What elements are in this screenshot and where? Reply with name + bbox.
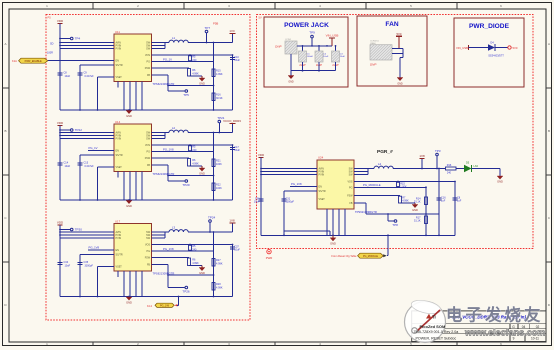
svg-text:0.047uF: 0.047uF — [85, 75, 95, 78]
svg-text:PG_MODULE: PG_MODULE — [363, 255, 378, 258]
svg-text:PG: PG — [147, 61, 151, 64]
test point TP22 — [59, 128, 82, 132]
svg-text:LNJ: LNJ — [474, 165, 479, 168]
wire output rail 1V0 — [188, 42, 232, 44]
svg-text:PGR_#: PGR_# — [377, 149, 393, 155]
svg-text:PVIN: PVIN — [116, 138, 122, 141]
svg-text:10uF: 10uF — [340, 56, 346, 58]
svg-text:30.9K: 30.9K — [216, 97, 223, 100]
svg-text:0.047uF: 0.047uF — [85, 165, 95, 168]
inductor L1 — [169, 36, 188, 43]
wire fan pins — [392, 49, 403, 78]
group box POWER JACK — [264, 17, 348, 87]
svg-text:EN: EN — [116, 60, 120, 63]
wire output rail VCCO_DDR3 — [188, 132, 232, 134]
svg-text:4.99K: 4.99K — [192, 262, 199, 265]
svg-text:7MB-7Z8X9 001-0 Rev 2.0a: 7MB-7Z8X9 001-0 Rev 2.0a — [414, 330, 459, 334]
svg-text:TP3: TP3 — [435, 149, 441, 153]
resistor R22 feedback divider bottom — [212, 183, 222, 191]
power port VDD (U14 input) — [57, 121, 64, 126]
wire VOS — [152, 244, 234, 246]
wire SW to inductor — [152, 232, 170, 238]
ground (U24) — [330, 235, 336, 245]
svg-text:VSET: VSET — [319, 198, 326, 201]
svg-text:4.99K: 4.99K — [216, 287, 223, 290]
wire ground rail — [60, 109, 233, 111]
connector J1 power jack (DNP) — [275, 39, 297, 54]
svg-text:1V8: 1V8 — [419, 154, 425, 158]
ground (LED) — [472, 169, 504, 184]
svg-text:VDD: VDD — [57, 19, 64, 23]
svg-text:1V0: 1V0 — [229, 29, 235, 33]
svg-text:PG: PG — [147, 151, 151, 154]
wire EN — [88, 146, 114, 151]
svg-text:100K: 100K — [216, 187, 222, 190]
svg-text:PG_MODULE: PG_MODULE — [363, 183, 381, 187]
resistor R15 feedback divider top — [212, 43, 223, 111]
svg-text:1uF: 1uF — [441, 199, 446, 202]
svg-text:PG_1V8: PG_1V8 — [291, 182, 302, 186]
svg-text:51.1K: 51.1K — [414, 201, 421, 204]
svg-text:5V0: 5V0 — [397, 32, 402, 36]
svg-text:PWR: PWR — [266, 256, 273, 260]
svg-text:A: A — [548, 42, 550, 46]
regulator IC U17 — [114, 220, 174, 276]
svg-text:VSET: VSET — [116, 266, 123, 269]
svg-text:POWER JACK: POWER JACK — [284, 22, 329, 29]
test point TP9 — [309, 31, 315, 46]
net flag P5B — [213, 22, 218, 26]
svg-text:240: 240 — [192, 59, 197, 62]
svg-text:GND: GND — [412, 208, 418, 212]
svg-text:A: A — [4, 42, 6, 46]
svg-text:TP26: TP26 — [182, 289, 190, 293]
harness port PWR_ENABLE — [12, 58, 48, 63]
svg-text:TP5: TP5 — [183, 93, 189, 97]
TI logo — [426, 314, 436, 320]
LED D5 — [456, 162, 479, 173]
wire ground rail (U24) — [261, 231, 455, 236]
svg-text:FB: FB — [147, 74, 150, 77]
power port 1V8 (U24 output) — [419, 154, 425, 169]
svg-text:GND: GND — [126, 114, 132, 118]
svg-text:PVIN: PVIN — [116, 237, 122, 240]
wire VOS — [152, 144, 234, 146]
title text — [452, 314, 526, 319]
svg-text:TP4: TP4 — [75, 37, 81, 41]
IC bottom pins to ground rail — [118, 271, 142, 297]
wire FB — [152, 265, 215, 288]
svg-text:GND: GND — [330, 241, 336, 245]
svg-text:51.1K: 51.1K — [414, 220, 421, 223]
test point TP24 — [208, 216, 216, 233]
svg-text:100uF: 100uF — [307, 56, 314, 58]
wire ground rail — [60, 296, 233, 298]
wire FSW — [152, 157, 190, 159]
wire VDD bus — [59, 24, 114, 49]
svg-text:SS/TR: SS/TR — [319, 190, 326, 193]
svg-text:CON1: CON1 — [285, 39, 292, 41]
wire SS — [80, 64, 114, 66]
test point TP30 — [59, 228, 82, 232]
inductor L4 — [374, 162, 393, 169]
wire FSW — [152, 257, 190, 259]
svg-text:3300pF: 3300pF — [85, 264, 94, 267]
svg-text:TP24: TP24 — [208, 216, 216, 220]
ground (fan) — [397, 78, 403, 86]
svg-text:VDD: VDD — [57, 221, 64, 225]
svg-text:www.elecfans.com: www.elecfans.com — [464, 328, 545, 338]
svg-text:TP22: TP22 — [75, 128, 83, 132]
svg-text:VIN_USB: VIN_USB — [326, 34, 339, 38]
wire PG — [152, 147, 214, 151]
svg-text:EN: EN — [116, 150, 120, 153]
no-ERC directive PWR — [266, 249, 273, 260]
resistor R5 pull-up — [189, 56, 197, 63]
output capacitor C16 — [437, 169, 447, 236]
svg-text:1.00K: 1.00K — [400, 185, 407, 188]
input capacitor C35 — [78, 255, 94, 297]
ground (U24 FSW resistor) — [400, 203, 418, 212]
power port VDD (U17 input) — [57, 221, 64, 226]
svg-text:VDD: VDD — [57, 121, 64, 125]
svg-text:B: B — [4, 129, 6, 133]
output capacitor C37 — [230, 245, 240, 297]
svg-text:240: 240 — [447, 172, 452, 175]
wire PG_1V8 port to rail — [177, 296, 179, 306]
svg-text:U24: U24 — [318, 156, 324, 160]
title block row 3 — [414, 330, 459, 334]
svg-text:4.99K: 4.99K — [216, 263, 223, 266]
input capacitor C14 — [58, 139, 71, 201]
regulator IC U11 — [114, 30, 174, 86]
wire VSET — [98, 77, 115, 110]
connector J2 fan header (DNP) — [370, 41, 392, 67]
svg-text:10uF: 10uF — [65, 75, 71, 78]
wire VOS — [152, 54, 234, 56]
wire FB (U24) — [354, 203, 439, 215]
svg-text:10uF: 10uF — [323, 56, 329, 58]
regulator IC U24 (module rail) — [317, 156, 377, 214]
title PGR_# — [377, 149, 393, 155]
svg-text:DNP: DNP — [370, 63, 376, 67]
wire SS — [80, 154, 114, 156]
resistor R7 (U24 FSW) — [399, 196, 410, 203]
svg-text:15uF: 15uF — [234, 149, 240, 152]
svg-text:PicoZed SOM: PicoZed SOM — [420, 324, 446, 329]
ground (FSW resistor) — [189, 76, 205, 86]
power port VCCO_DDR3 — [223, 119, 241, 132]
svg-text:EN: EN — [319, 186, 323, 189]
wire SS (U24) — [284, 190, 317, 192]
output capacitor C10 — [230, 55, 240, 110]
dashed group box: power input (right) — [257, 15, 534, 249]
inductor L3 — [169, 226, 188, 233]
resistor R16 feedback divider bottom — [212, 93, 223, 101]
svg-text:VOS: VOS — [347, 181, 352, 184]
power port 1V0 — [229, 29, 235, 42]
svg-text:100R: 100R — [47, 52, 53, 55]
svg-text:4.99K: 4.99K — [192, 162, 199, 165]
wire diode cathode — [495, 47, 508, 49]
wire VDD bus (U24) — [260, 158, 317, 236]
input capacitor C34 — [58, 238, 71, 297]
wire output rail 1V8_MOD — [393, 168, 445, 170]
wire PG — [152, 247, 214, 251]
svg-text:1V8: 1V8 — [229, 219, 235, 223]
wire EN — [88, 246, 114, 251]
resistor R16 (LED series) — [446, 164, 457, 175]
svg-text:240: 240 — [192, 249, 197, 252]
svg-text:GND: GND — [497, 180, 503, 184]
svg-text:FB: FB — [349, 202, 352, 205]
U24 bottom pins to ground rail — [327, 209, 345, 235]
svg-text:R16: R16 — [447, 164, 452, 167]
test point TP21 — [217, 116, 225, 133]
svg-text:FSW: FSW — [347, 195, 353, 198]
svg-text:L4: L4 — [378, 162, 382, 166]
svg-text:PG_1V8: PG_1V8 — [163, 247, 174, 251]
svg-text:GND: GND — [126, 301, 132, 305]
svg-text:GND: GND — [397, 83, 403, 86]
harness port PG_MODULE (bottom) — [331, 253, 386, 258]
svg-text:GND: GND — [199, 271, 205, 275]
resistor R14 divider top (U24) — [414, 186, 428, 235]
power port VDD (U11 input) — [57, 19, 64, 24]
svg-text:FB: FB — [147, 164, 150, 167]
svg-text:4.99K: 4.99K — [192, 72, 199, 75]
svg-text:GND: GND — [199, 172, 205, 176]
test point TP4 — [59, 37, 80, 41]
svg-text:U11: U11 — [115, 30, 120, 34]
svg-text:PG_1V8: PG_1V8 — [160, 305, 170, 308]
svg-text:10uF: 10uF — [65, 264, 71, 267]
svg-text:5V: 5V — [259, 16, 262, 20]
wire FSW — [152, 67, 190, 69]
svg-text:TP9: TP9 — [309, 31, 315, 35]
test point TP26 — [182, 286, 190, 293]
group box FAN — [357, 16, 427, 86]
svg-text:U17: U17 — [115, 220, 121, 224]
watermark text — [446, 305, 545, 338]
svg-text:10uF: 10uF — [234, 249, 240, 252]
test point TP7 — [205, 26, 211, 43]
title block row 2 — [420, 324, 540, 329]
resistor R5 pull-up — [189, 245, 197, 252]
svg-text:SS/TR: SS/TR — [116, 154, 123, 157]
svg-text:TP8: TP8 — [392, 223, 398, 227]
svg-text:VDD: VDD — [258, 153, 265, 157]
wire EN (U24) net PG_1V8 — [290, 182, 317, 187]
svg-text:POWER, RESET Subdoc: POWER, RESET Subdoc — [416, 336, 457, 340]
svg-text:L3: L3 — [172, 226, 176, 230]
wire VSET — [98, 167, 115, 200]
svg-text:PWR_DIODE: PWR_DIODE — [469, 23, 510, 30]
wire VIN bus — [297, 45, 332, 47]
svg-text:FSW: FSW — [145, 67, 151, 70]
wire FB — [152, 165, 215, 181]
svg-text:GND: GND — [199, 82, 205, 86]
capacitor C1 (DNP) — [299, 46, 314, 71]
wire VSET — [98, 267, 115, 297]
svg-text:TI: TI — [432, 314, 436, 319]
wire EN — [47, 43, 114, 61]
svg-text:TP7: TP7 — [205, 26, 211, 30]
svg-text:TP20: TP20 — [182, 183, 190, 187]
svg-text:SS/TR: SS/TR — [116, 254, 123, 257]
wire PG_MODULE port to rail — [387, 234, 389, 255]
svg-text:L2: L2 — [172, 126, 176, 130]
wire VDD bus — [59, 126, 114, 139]
power port VDD (U24 input) — [258, 153, 265, 158]
ground (power stage) — [126, 297, 132, 305]
input capacitor C30 — [254, 197, 264, 203]
wire PG — [152, 57, 214, 61]
power port VIN_USB — [326, 34, 339, 46]
wire SW to inductor — [152, 43, 170, 49]
capacitor C3 (DNP) — [332, 45, 346, 71]
svg-text:D4: D4 — [490, 41, 494, 45]
wire output rail 1V8 — [188, 231, 232, 233]
ground (FSW resistor) — [189, 166, 205, 176]
dashed group box: power supplies (left) — [46, 15, 250, 321]
inductor L2 — [169, 126, 188, 133]
capacitor C2 (DNP) — [315, 46, 329, 71]
IC bottom pins to ground rail — [118, 172, 142, 201]
svg-text:K2-b: K2-b — [147, 305, 153, 308]
svg-text:FB: FB — [147, 264, 150, 267]
watermark logo circle — [405, 298, 446, 342]
svg-text:P5: P5 — [48, 16, 52, 20]
svg-text:PG_1V8: PG_1V8 — [89, 246, 100, 250]
resistor R6 — [188, 69, 200, 77]
port 5V0 (diode output) — [508, 46, 518, 50]
svg-text:SD: SD — [50, 43, 54, 46]
ground (power stage) — [126, 201, 132, 209]
harness port PG_1V8 (to sequencing) — [147, 303, 178, 308]
IC bottom pins to ground rail — [118, 82, 142, 111]
ground (power stage) — [126, 111, 132, 119]
power port 1V8 — [229, 219, 235, 232]
test point TP8 — [388, 214, 398, 227]
svg-text:PG_1V: PG_1V — [163, 57, 172, 61]
svg-text:100K: 100K — [216, 163, 222, 166]
svg-text:TP30: TP30 — [75, 228, 83, 232]
svg-text:K1A: K1A — [12, 59, 17, 63]
wire VOS (U24) — [354, 181, 456, 183]
svg-text:4.99K: 4.99K — [216, 73, 223, 76]
diode D4 — [488, 41, 504, 58]
wire VDD bus — [59, 225, 114, 238]
svg-text:FAN: FAN — [385, 21, 398, 28]
resistor R21 feedback divider top — [212, 133, 222, 201]
svg-text:P5B: P5B — [213, 22, 218, 26]
wire SW to inductor — [152, 133, 170, 139]
resistor R27 feedback divider top — [212, 232, 223, 297]
title block row 4 — [416, 336, 540, 340]
group box PWR_DIODE — [454, 18, 524, 87]
svg-text:L1: L1 — [172, 36, 176, 40]
svg-text:5V0: 5V0 — [513, 46, 518, 50]
svg-text:VSET: VSET — [116, 166, 123, 169]
svg-text:PVIN: PVIN — [319, 174, 325, 177]
svg-text:FSW: FSW — [145, 157, 151, 160]
test point TP3 — [435, 149, 441, 169]
svg-text:PVIN: PVIN — [116, 48, 122, 51]
svg-text:VOS: VOS — [145, 54, 150, 57]
svg-text:VIN_USB: VIN_USB — [456, 46, 468, 50]
resistor R6 — [188, 258, 200, 266]
test point TP5 — [183, 90, 189, 97]
wire SW to inductor (U24) — [354, 169, 374, 175]
title block — [412, 311, 546, 342]
wire diode anode — [469, 47, 489, 49]
svg-text:PG: PG — [147, 250, 151, 253]
resistor R6 — [188, 159, 200, 167]
svg-text:DNP: DNP — [275, 45, 281, 49]
svg-text:4.99K: 4.99K — [402, 200, 409, 203]
svg-text:VSET: VSET — [116, 76, 123, 79]
svg-text:EN: EN — [116, 249, 120, 252]
wire jack ground bus — [291, 54, 336, 76]
resistor R28 feedback divider bottom — [212, 283, 223, 291]
input capacitor C9 — [78, 65, 95, 110]
svg-text:PG_1V8: PG_1V8 — [163, 147, 174, 151]
output capacitor C17 — [230, 145, 240, 200]
wire FB — [152, 75, 215, 91]
input capacitor C8 — [58, 49, 71, 111]
input capacitor C31 — [282, 191, 295, 235]
svg-text:U14: U14 — [115, 120, 121, 124]
ground (FSW resistor) — [189, 266, 205, 276]
svg-text:GND: GND — [126, 204, 132, 208]
resistor R15 pull-up (U24) — [397, 182, 408, 188]
svg-text:FSW: FSW — [145, 257, 151, 260]
svg-text:15uF: 15uF — [234, 59, 240, 62]
svg-text:10uF: 10uF — [254, 200, 260, 203]
svg-text:From Reset Cfg Table: From Reset Cfg Table — [331, 254, 357, 258]
wire SS — [80, 254, 114, 256]
wire PG net PG_MODULE — [354, 183, 426, 187]
resistor R5 pull-up — [189, 146, 197, 153]
svg-text:电子发烧友: 电子发烧友 — [446, 305, 544, 325]
power port VIN_USB (diode anode) — [456, 45, 469, 50]
svg-text:240: 240 — [192, 149, 197, 152]
wire ground rail — [60, 199, 233, 201]
svg-text:10uF: 10uF — [65, 165, 71, 168]
svg-text:SS/TR: SS/TR — [116, 64, 123, 67]
input capacitor C15 — [78, 155, 95, 200]
svg-text:VOS: VOS — [145, 144, 150, 147]
regulator IC U14 — [114, 120, 174, 176]
svg-text:PG: PG — [349, 186, 353, 189]
test point TP20 — [182, 180, 190, 187]
svg-text:VOS: VOS — [145, 244, 150, 247]
power port 5V0 (fan) — [396, 32, 402, 49]
svg-text:SS34-E3/57T: SS34-E3/57T — [488, 54, 504, 58]
svg-text:3300pF: 3300pF — [286, 200, 295, 203]
output capacitor C8 — [453, 182, 462, 236]
svg-text:PWR_ENABLE: PWR_ENABLE — [25, 60, 42, 63]
svg-text:1uF: 1uF — [457, 199, 462, 202]
svg-text:GND: GND — [288, 81, 294, 84]
resistor R17 divider bottom (U24) — [414, 216, 428, 224]
svg-text:PG_1V: PG_1V — [89, 146, 98, 150]
ground (power jack) — [288, 76, 294, 84]
svg-text:VCCO_DDR3: VCCO_DDR3 — [223, 119, 241, 123]
wire FSW (U24) — [354, 195, 400, 197]
svg-text:B: B — [548, 129, 550, 133]
